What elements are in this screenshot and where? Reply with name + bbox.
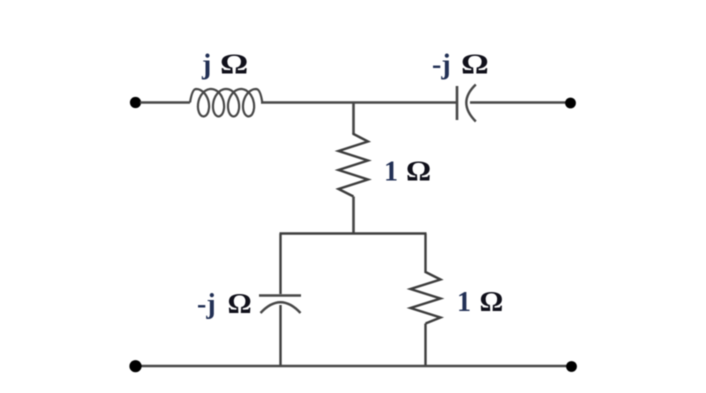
wire: top junction down to resistor R1	[352, 103, 355, 135]
capacitor C2 curved bottom plate	[261, 302, 301, 313]
node: right bottom terminal	[566, 361, 577, 372]
capacitor C1 (-j ohm), straight left plate	[456, 86, 459, 120]
resistor R1 1 ohm (vertical, middle)	[339, 133, 369, 197]
wire: box top edge	[280, 232, 427, 234]
svg-text:Ω: Ω	[461, 49, 489, 80]
svg-text:-j: -j	[432, 50, 451, 81]
svg-text:1: 1	[457, 287, 471, 318]
svg-text:Ω: Ω	[228, 289, 252, 320]
wire: resistor to box top	[352, 197, 355, 235]
wire: right branch lower	[424, 324, 426, 367]
svg-text:Ω: Ω	[406, 157, 431, 187]
wire: left branch lower	[279, 305, 281, 366]
node: left top terminal	[130, 97, 141, 108]
wire: left branch upper	[279, 234, 281, 295]
svg-text:Ω: Ω	[220, 49, 248, 80]
wire: bottom rail	[138, 365, 569, 367]
capacitor C2 (-j ohm) straight top plate	[259, 294, 301, 297]
svg-text:Ω: Ω	[480, 287, 504, 318]
resistor R2 1 ohm (bottom right)	[411, 272, 441, 324]
inductor L1 (j ohm)	[190, 89, 262, 116]
wire: inductor to junction to capacitor	[261, 101, 456, 103]
svg-text:1: 1	[384, 157, 398, 188]
svg-text:-j: -j	[197, 289, 216, 320]
svg-text:j: j	[201, 50, 211, 81]
wire: left terminal to inductor	[140, 101, 190, 103]
capacitor C1 curved right plate	[466, 85, 476, 122]
wire: capacitor to right terminal	[470, 101, 567, 103]
node: left bottom terminal	[129, 360, 141, 372]
wire: right branch upper	[424, 234, 426, 274]
node: right top terminal	[565, 98, 576, 109]
